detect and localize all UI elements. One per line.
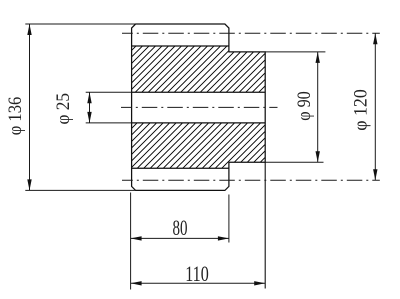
svg-text:φ 90: φ 90	[294, 91, 315, 121]
svg-text:110: 110	[185, 261, 209, 286]
svg-text:φ 120: φ 120	[351, 89, 372, 131]
svg-text:80: 80	[173, 215, 188, 240]
svg-text:φ 136: φ 136	[5, 97, 26, 136]
svg-text:φ 25: φ 25	[53, 93, 74, 125]
